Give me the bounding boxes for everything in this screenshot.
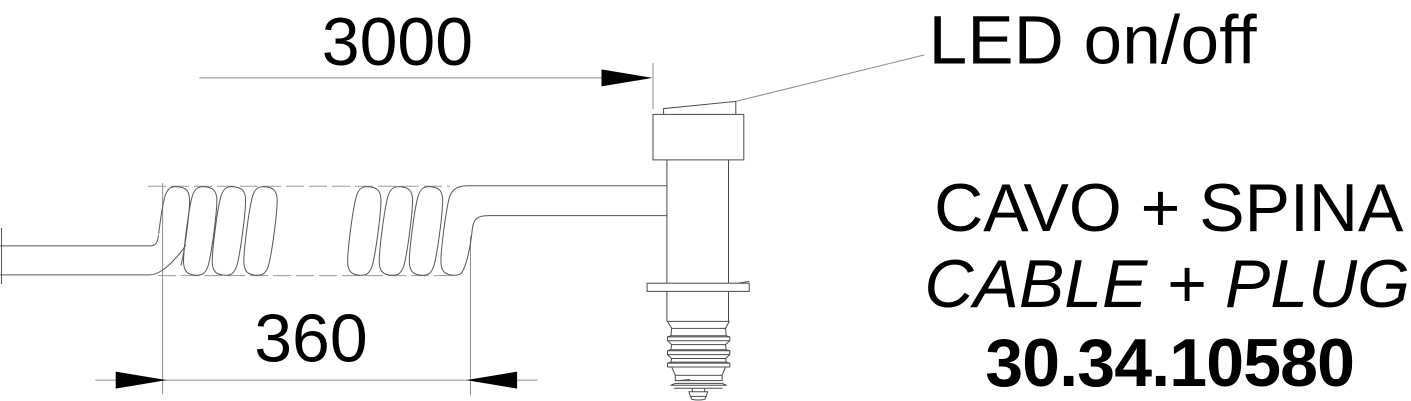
svg-text:30.34.10580: 30.34.10580 [985, 325, 1354, 401]
svg-text:CABLE + PLUG: CABLE + PLUG [924, 246, 1410, 322]
svg-text:360: 360 [254, 301, 367, 377]
svg-text:CAVO + SPINA: CAVO + SPINA [934, 170, 1404, 246]
svg-text:3000: 3000 [322, 4, 473, 80]
svg-text:LED on/off: LED on/off [929, 1, 1258, 78]
